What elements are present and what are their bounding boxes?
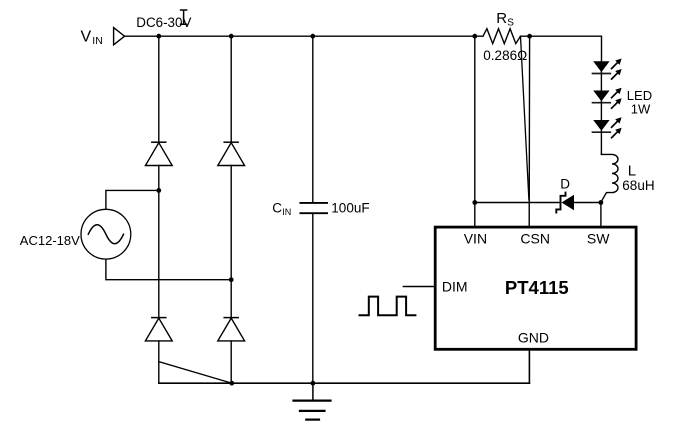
wire bridge right bottom bbox=[230, 341, 232, 383]
wire bridge right top drop bbox=[230, 36, 232, 142]
svg-text:VIN: VIN bbox=[464, 231, 487, 247]
svg-text:CSN: CSN bbox=[520, 231, 550, 247]
wire bridge diagonal bbox=[159, 362, 232, 383]
label VIN bbox=[81, 28, 103, 47]
wire freewheel horizontal left bbox=[475, 202, 560, 204]
svg-text:GND: GND bbox=[518, 330, 549, 346]
wire GND drop bbox=[528, 350, 530, 383]
junction node bridge bottom right bbox=[229, 381, 234, 386]
wire LED string segments bbox=[600, 61, 602, 154]
junction node ground bbox=[311, 381, 316, 386]
junction node VIN/freewheel bbox=[472, 200, 477, 205]
svg-text:V: V bbox=[81, 28, 92, 45]
svg-text:D: D bbox=[560, 176, 570, 191]
AC source sine bbox=[88, 225, 123, 244]
wire AC bottom lead bbox=[106, 259, 231, 280]
svg-text:R: R bbox=[496, 10, 507, 27]
inductor L bbox=[601, 154, 618, 202]
schottky diode D triangle bbox=[562, 195, 575, 211]
wire top rail right bbox=[521, 36, 602, 61]
wire CSN vertical bbox=[528, 36, 530, 226]
wire CSN slant bbox=[521, 36, 529, 200]
junction node AC top bbox=[156, 188, 161, 193]
junction node SW bbox=[599, 200, 604, 205]
ground symbol bbox=[294, 383, 331, 419]
wire DIM bbox=[404, 286, 434, 288]
wire CIN top drop bbox=[312, 36, 314, 202]
wire bridge left top drop bbox=[158, 36, 160, 142]
bridge diode top-left bbox=[145, 142, 172, 165]
resistor RS bbox=[483, 29, 521, 44]
junction node RS right bbox=[527, 34, 532, 39]
svg-text:DIM: DIM bbox=[442, 278, 468, 294]
label LED 1W bbox=[627, 88, 652, 116]
bridge diode bottom-right bbox=[218, 318, 245, 341]
wire CIN bottom bbox=[312, 214, 314, 383]
bridge diode top-right bbox=[218, 142, 245, 165]
label L 68uH bbox=[622, 163, 654, 193]
IC U1 PT4115 box bbox=[435, 227, 636, 349]
LED D1 bbox=[593, 59, 622, 80]
junction node CIN top bbox=[310, 34, 315, 39]
wire VIN sense drop bbox=[474, 36, 476, 226]
input port triangle bbox=[114, 28, 125, 45]
wire bridge left middle bbox=[158, 166, 160, 318]
LED D2 bbox=[593, 88, 622, 109]
junction node AC bottom bbox=[229, 277, 234, 282]
junction node RS left bbox=[472, 34, 477, 39]
schottky diode D bar bbox=[556, 193, 565, 213]
wire bottom ground rail bbox=[159, 382, 530, 384]
svg-text:100uF: 100uF bbox=[331, 200, 369, 215]
svg-text:C: C bbox=[272, 200, 282, 215]
svg-text:PT4115: PT4115 bbox=[505, 277, 569, 298]
wire top rail left bbox=[125, 35, 483, 37]
LED D3 bbox=[593, 117, 622, 138]
bridge diode bottom-left bbox=[145, 318, 172, 341]
svg-text:SW: SW bbox=[587, 231, 610, 247]
PWM square wave symbol bbox=[360, 297, 416, 316]
svg-text:1W: 1W bbox=[631, 101, 651, 116]
svg-text:68uH: 68uH bbox=[622, 178, 654, 193]
wire freewheel horizontal right bbox=[574, 202, 601, 204]
junction node bridge right top bbox=[229, 34, 234, 39]
svg-text:AC12-18V: AC12-18V bbox=[20, 233, 80, 248]
wire bridge left bottom bbox=[158, 341, 160, 383]
svg-text:S: S bbox=[507, 18, 514, 29]
junction node at DC label bbox=[156, 34, 161, 39]
svg-text:IN: IN bbox=[282, 207, 291, 217]
wire AC top lead bbox=[106, 190, 159, 209]
svg-text:IN: IN bbox=[92, 35, 103, 47]
capacitor CIN plates bbox=[300, 203, 327, 213]
label RS bbox=[496, 10, 514, 29]
mouse text cursor I-beam bbox=[181, 10, 187, 24]
wire bridge right middle bbox=[230, 166, 232, 318]
AC source circle bbox=[81, 209, 131, 259]
wire SW drop bbox=[600, 203, 602, 226]
label CIN bbox=[272, 200, 291, 217]
